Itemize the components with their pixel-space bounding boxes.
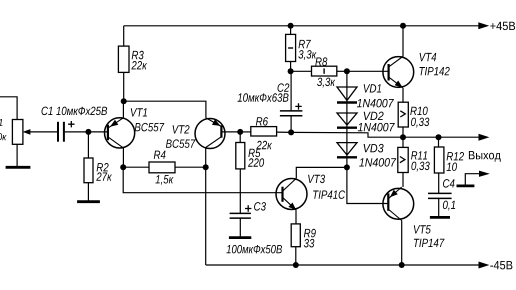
- wire VT1 collector down: [122, 148, 124, 167]
- wire R3 top: [123, 26, 125, 46]
- wire R11 bottom to VT5 emitter: [402, 173, 404, 188]
- resistor R3: [118, 46, 129, 72]
- wire VT4 collector: [402, 26, 404, 57]
- label 0,33 R10: [411, 118, 429, 128]
- wire chain to VT5 base: [347, 167, 388, 203]
- label 3,3к R8: [317, 78, 335, 88]
- node R3/VT1 emitter: [121, 98, 127, 104]
- label BC557 VT1: [135, 123, 165, 131]
- wire R2 top: [87, 132, 89, 158]
- wire C4 bottom: [438, 198, 440, 217]
- wire VT3 collector: [296, 167, 347, 178]
- label R3: [132, 51, 144, 60]
- label 10к (clipped): [0, 133, 7, 140]
- label 1N4007 VD3: [359, 158, 396, 167]
- ground C3: [229, 236, 251, 239]
- label VT4: [420, 53, 437, 61]
- wire VT5 collector: [401, 221, 403, 266]
- label 1N4007 VD2: [358, 123, 395, 131]
- transistor VT4: [383, 57, 414, 88]
- wire R4 left: [123, 166, 149, 168]
- wire VT2 collector to rail: [205, 148, 207, 266]
- transistor VT2: [195, 118, 225, 149]
- label R10: [410, 107, 427, 116]
- label R8: [315, 57, 327, 66]
- label C3: [254, 202, 266, 211]
- label +45В: [490, 22, 515, 30]
- wire R5 top: [239, 132, 241, 143]
- wire output line: [403, 136, 479, 138]
- capacitor C4: [428, 193, 452, 198]
- wire R5 to C3: [239, 169, 241, 214]
- resistor R5: [236, 143, 245, 169]
- label 100мкФх50В: [226, 245, 282, 254]
- potentiometer R1: [12, 120, 58, 145]
- label C4: [443, 179, 455, 188]
- label R2: [97, 163, 109, 171]
- resistor R6: [251, 127, 277, 136]
- resistor R2: [84, 158, 93, 183]
- label R6: [256, 117, 268, 126]
- node VT5 collector/rail: [399, 262, 405, 268]
- label R7: [299, 40, 311, 48]
- label 27к: [96, 172, 112, 180]
- wire R11 top: [402, 137, 404, 147]
- transistor VT5: [383, 187, 414, 221]
- wire R10 bottom: [402, 127, 404, 137]
- wire R8 left: [291, 70, 312, 72]
- ground R1: [6, 166, 31, 169]
- label 3,3к R7: [298, 50, 316, 60]
- wire C1 to VT1 base: [64, 131, 108, 133]
- label C2: [278, 83, 290, 92]
- label 1,5к: [156, 175, 174, 185]
- ground C4: [430, 216, 450, 219]
- node output/R10/R11: [400, 134, 406, 140]
- resistor R8: [312, 66, 337, 76]
- node R4 right: [203, 164, 209, 170]
- label VD2: [364, 112, 384, 120]
- label Выход: [469, 151, 501, 162]
- transistor VT1: [105, 118, 135, 148]
- node VD3/VT3 collector/VT5 base: [344, 164, 350, 170]
- wire R6 left: [240, 131, 251, 133]
- wire +45V rail: [124, 25, 479, 27]
- label 10мкФх63В: [238, 93, 289, 102]
- wire diode chain: [346, 71, 348, 167]
- wire R9 bottom: [295, 247, 297, 265]
- ground R2: [77, 200, 100, 203]
- label 22к R6: [256, 141, 272, 149]
- node rail/R7: [288, 23, 294, 29]
- resistor R12: [434, 147, 444, 173]
- capacitor C1: [58, 121, 75, 142]
- resistor R7: [286, 34, 296, 61]
- label R1 (clipped): [0, 119, 3, 126]
- wire C2 bottom: [290, 116, 292, 133]
- label R9: [304, 229, 316, 238]
- node C2 bottom: [288, 129, 294, 135]
- wire R7 top: [290, 26, 292, 35]
- label VD3: [364, 144, 384, 153]
- label VT1: [131, 108, 147, 116]
- label BC557 VT2: [166, 139, 196, 148]
- wire R8 right: [337, 70, 347, 72]
- wire output return: [465, 174, 479, 186]
- wire VT1 collector to VT3 base: [123, 167, 282, 193]
- label VT2: [173, 125, 190, 133]
- wire R12 top: [438, 137, 440, 147]
- label 22к R3: [131, 61, 147, 69]
- wire R6 right / feedback line: [277, 132, 403, 137]
- node rail/VT4 collector: [400, 23, 406, 29]
- wire R1 bottom: [16, 144, 18, 167]
- resistor R10: [398, 102, 408, 127]
- label VT5: [414, 225, 431, 233]
- label VD1: [364, 84, 381, 92]
- ground output return: [457, 184, 475, 187]
- label R5: [248, 149, 260, 157]
- transistor VT3: [276, 178, 307, 210]
- diode VD1: [337, 87, 357, 103]
- node R8/VD1/VT4 base: [344, 68, 350, 74]
- label TIP142: [420, 67, 450, 75]
- resistor R4: [149, 162, 175, 173]
- diode VD3: [337, 143, 357, 158]
- label VT3: [308, 175, 325, 184]
- label C1 10мкФх25В: [42, 107, 108, 116]
- wire VT4 emitter: [402, 88, 404, 102]
- capacitor C3: [230, 205, 252, 218]
- wire R12 to C4: [438, 173, 440, 193]
- label R4: [154, 151, 166, 159]
- arrow output return: [479, 171, 490, 177]
- node C1/R2/VT1: [85, 129, 91, 135]
- wire VT1 emitter up: [122, 101, 124, 118]
- resistor R9: [291, 224, 300, 247]
- wire -45V rail: [206, 264, 479, 266]
- wire C2 top: [290, 71, 292, 111]
- label 1N4007 VD1: [357, 99, 394, 108]
- label 0,1: [443, 201, 455, 211]
- capacitor C2: [280, 103, 303, 116]
- arrow output: [479, 134, 490, 141]
- wire tail link to VT2: [124, 101, 206, 118]
- wire VT3 emitter: [295, 210, 297, 224]
- label 10: [447, 163, 457, 172]
- label 0,33 R11: [411, 162, 429, 172]
- label -45В: [490, 261, 512, 269]
- label TIP41C: [313, 190, 345, 199]
- arrow +45V: [478, 22, 489, 29]
- label TIP147: [414, 239, 445, 247]
- arrow -45V: [479, 262, 490, 269]
- node R7/R8/C2: [288, 68, 294, 74]
- node R4 left: [120, 164, 126, 170]
- wire R2 bottom: [87, 183, 89, 202]
- wire VT4 base: [347, 70, 389, 72]
- label 220: [248, 158, 264, 167]
- label R12: [447, 152, 464, 160]
- label R11: [411, 151, 427, 159]
- wire input top-left: [0, 97, 17, 120]
- node VT2 base/R5/R6: [237, 129, 243, 135]
- wire R4 right: [175, 166, 206, 168]
- node output/R12: [436, 134, 442, 140]
- resistor R11: [398, 147, 408, 172]
- node R9/rail: [293, 262, 299, 268]
- wire C3 bottom: [239, 218, 241, 238]
- wire R7 bottom: [290, 62, 292, 72]
- wire VT2 base: [221, 131, 240, 133]
- label 33: [304, 239, 315, 248]
- wire R3 bottom: [123, 72, 125, 101]
- diode VD2: [337, 113, 357, 128]
